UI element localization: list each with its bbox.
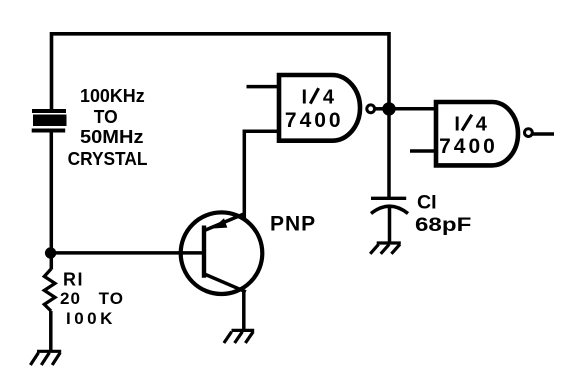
ground C1: [370, 243, 401, 254]
svg-text:20 TO: 20 TO: [60, 289, 124, 308]
ground transistor: [224, 330, 254, 343]
label crystal value: [68, 86, 148, 169]
svg-text:I: I: [302, 86, 308, 108]
node U1 output junction: [382, 102, 395, 115]
crystal Y1: [32, 109, 67, 133]
wire emitter to ground: [242, 290, 246, 330]
label R1 value: [60, 270, 124, 329]
label U1: [285, 86, 344, 131]
wire U2 input B stub: [410, 149, 437, 153]
svg-text:4: 4: [476, 113, 488, 135]
wire U1 input A stub: [247, 85, 280, 89]
ground left: [30, 351, 61, 365]
wire U2 output: [533, 132, 554, 136]
svg-text:CRYSTAL: CRYSTAL: [68, 149, 148, 169]
capacitor C1: [371, 198, 408, 213]
svg-text:CI: CI: [417, 192, 437, 213]
wire U1 bubble to node: [375, 107, 386, 111]
transistor Q1: [181, 212, 263, 294]
label U2: [439, 113, 498, 158]
label C1 value: [415, 192, 471, 236]
node base junction: [45, 247, 56, 258]
wire base: [51, 251, 204, 255]
NAND gate U2: [436, 102, 518, 165]
svg-text:4: 4: [323, 86, 335, 108]
svg-text:7400: 7400: [439, 135, 498, 158]
svg-text:50MHz: 50MHz: [80, 127, 144, 147]
wire node down to C1: [387, 109, 391, 197]
wire left rail lower: [50, 132, 54, 270]
svg-text:TO: TO: [94, 107, 118, 127]
svg-text:I00K: I00K: [66, 309, 116, 328]
svg-text:68pF: 68pF: [415, 214, 471, 236]
wire U1 input B to emitter: [244, 131, 279, 218]
wire node to U2 input: [389, 107, 438, 111]
svg-text:7400: 7400: [285, 109, 344, 132]
wire R1 to ground: [49, 311, 53, 351]
bubble U2 output: [525, 129, 533, 137]
wire C1 to ground: [388, 208, 392, 242]
svg-text:100KHz: 100KHz: [80, 86, 145, 106]
bubble U1 output: [367, 105, 375, 113]
resistor R1: [44, 269, 55, 311]
svg-text:I: I: [454, 113, 460, 135]
svg-text:PNP: PNP: [270, 213, 316, 236]
svg-text:RI: RI: [63, 270, 84, 290]
wire top rail: [52, 34, 390, 110]
NAND gate U1: [279, 75, 360, 141]
